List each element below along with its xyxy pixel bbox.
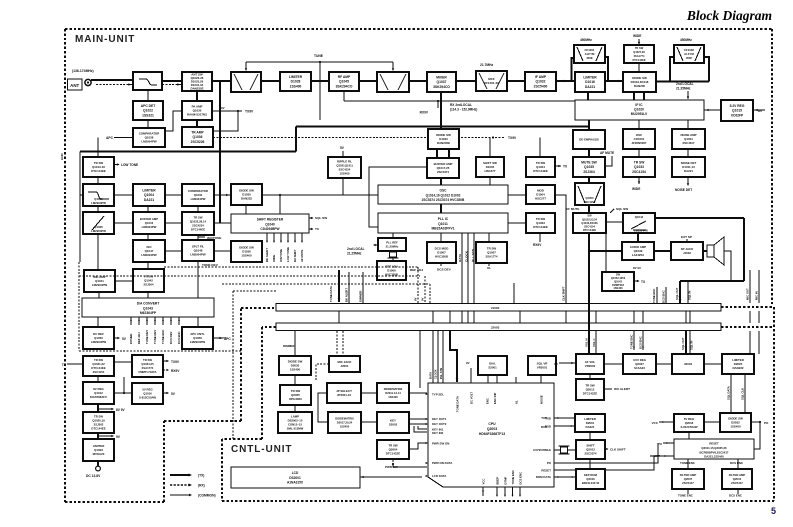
svg-text:(COMMON): (COMMON) — [198, 494, 216, 498]
wire IF IC to osc — [638, 120, 640, 129]
ah daout TONE DEV — [154, 319, 156, 321]
wire d1033 to buffer — [437, 149, 449, 158]
block TR SW Q1003 — [526, 213, 555, 233]
wire trsw q1004 up — [539, 138, 541, 158]
wire filter2 to mixer — [409, 80, 427, 82]
wire sp jack to speaker — [703, 250, 707, 252]
block TR SW Q1020 — [83, 412, 114, 433]
svg-text:RX9V: RX9V — [533, 243, 542, 247]
wire clk shift drop — [565, 279, 567, 303]
svg-text:3SK294CO: 3SK294CO — [433, 85, 450, 89]
block DIODE SW D1036 — [231, 241, 262, 262]
wire trsw q1024 rx9v — [163, 369, 168, 371]
svg-text:TONE ENC: TONE ENC — [652, 289, 656, 303]
wire limiter2 down to IF IC — [587, 92, 589, 100]
ah shtx — [311, 228, 314, 230]
svg-text:DPH4063: DPH4063 — [289, 397, 302, 401]
svg-text:2SC4154: 2SC4154 — [632, 170, 646, 174]
wire PA AMP right TX9V — [212, 110, 242, 112]
svg-text:D2011-12,14: D2011-12,14 — [385, 391, 401, 395]
svg-text:BK ALERT: BK ALERT — [265, 248, 269, 262]
wire key to cpu out2 — [409, 423, 427, 425]
wire vcc into 5vreg — [659, 421, 674, 423]
wire D/A out REF ADJ — [138, 317, 140, 325]
svg-text:TR SW: TR SW — [635, 46, 644, 50]
svg-text:D2017,20,24: D2017,20,24 — [337, 420, 353, 424]
svg-text:LM2904PW: LM2904PW — [634, 229, 648, 233]
svg-text:3.579545MHz: 3.579545MHz — [533, 448, 552, 452]
svg-text:DS2001: DS2001 — [289, 476, 301, 480]
svg-text:REF ADJ: REF ADJ — [137, 332, 141, 344]
block TR SW Q2004 — [377, 440, 409, 459]
svg-text:TONE DATA: TONE DATA — [329, 286, 333, 302]
block DCS MOD — [427, 242, 456, 263]
svg-text:DITHER: DITHER — [129, 334, 133, 344]
svg-text:GND: GND — [60, 153, 64, 161]
svg-text:HSC277: HSC277 — [485, 169, 496, 173]
ah sqlsw — [311, 217, 314, 219]
svg-text:LM2904PW: LM2904PW — [141, 140, 157, 144]
svg-text:DCS ENC: DCS ENC — [730, 461, 744, 465]
wire sql data down — [730, 374, 732, 413]
wire trsw to trsw power — [114, 361, 132, 363]
svg-text:CD4094BPW: CD4094BPW — [260, 227, 279, 231]
svg-text:Q1032: Q1032 — [536, 80, 546, 84]
ah lowtone — [117, 163, 120, 165]
wire lpf down hpf — [97, 206, 99, 212]
block DIODE SW D1010 — [623, 72, 656, 92]
arrowhead wideb — [638, 181, 640, 184]
svg-text:2SC4617: 2SC4617 — [682, 141, 694, 145]
block DIODE SW D2032 — [720, 413, 751, 432]
wire cpu keyin2 — [414, 426, 427, 432]
block TR AMP — [182, 127, 213, 147]
svg-text:CLK SHIFT: CLK SHIFT — [610, 448, 626, 452]
wire D/A out DITHER — [130, 317, 132, 325]
svg-text:D1016: D1016 — [585, 80, 595, 84]
block DC REF — [83, 327, 114, 349]
wire shift register out RX SHIFT — [294, 233, 296, 242]
block COMPARATOR APC — [133, 128, 165, 147]
svg-text:LM2904PW: LM2904PW — [91, 201, 106, 205]
svg-text:APC: APC — [106, 136, 114, 140]
wire TUNE drop — [319, 62, 321, 120]
block NOISE DET — [672, 157, 705, 177]
svg-text:SQL OUT: SQL OUT — [681, 337, 685, 350]
svg-text:1SS400: 1SS400 — [730, 425, 741, 429]
junction d1030 line — [279, 194, 281, 196]
junction TX9V mid — [492, 136, 494, 138]
wire dimmer j2003 down — [294, 331, 296, 356]
wire mic out above j1003 — [749, 270, 751, 303]
wire CF1001 right leg — [605, 57, 608, 81]
block SW Q1052 group — [573, 213, 606, 233]
wire buffer down iso — [147, 234, 149, 240]
svg-text:DTC144EE: DTC144EE — [533, 169, 548, 173]
ah cpu left y443 — [426, 442, 428, 444]
svg-text:LM2904PW: LM2904PW — [91, 340, 107, 344]
svg-text:Q1052,1053: Q1052,1053 — [611, 276, 626, 280]
wire cpu po route — [554, 443, 658, 463]
svg-text:DTC144EE: DTC144EE — [533, 225, 548, 229]
svg-text:Q2011,15,Q2025,26: Q2011,15,Q2025,26 — [701, 446, 727, 450]
wire 8vreg to 5vreg — [114, 392, 132, 394]
wire tone data thick — [338, 270, 340, 302]
wire lowtone stub — [114, 164, 119, 166]
svg-text:2SC5226: 2SC5226 — [191, 140, 205, 144]
arrowhead noisedet — [687, 183, 689, 186]
svg-text:D/A CONVERT: D/A CONVERT — [137, 302, 160, 306]
block SQL VR — [528, 356, 556, 375]
wire sw tx out — [634, 280, 639, 282]
block SQL SW Q1044 — [623, 213, 655, 233]
svg-text:ANT: ANT — [70, 83, 79, 88]
wire clock down — [467, 233, 469, 303]
svg-text:Q1045: Q1045 — [339, 80, 349, 84]
svg-text:5: 5 — [771, 506, 776, 516]
wire fa2 out — [737, 489, 739, 494]
svg-text:LOW TONE: LOW TONE — [286, 247, 290, 262]
wire q2004 to cpu — [409, 443, 427, 449]
svg-text:Q1050: Q1050 — [585, 196, 594, 200]
block OSC CO1001 — [623, 129, 655, 149]
wire buffer to osc — [440, 178, 442, 185]
wire jp to matrix1 — [361, 392, 377, 394]
svg-text:(136-174MHz): (136-174MHz) — [72, 69, 94, 73]
svg-text:JF06N5007: JF06N5007 — [631, 141, 646, 145]
ah shiftout AF MUTE — [301, 241, 303, 243]
block J2004 — [672, 354, 704, 374]
frame CNTL-UNIT bottom — [222, 500, 774, 502]
block APC CNTL — [182, 327, 213, 349]
bus RX audio corner vertical — [295, 127, 297, 152]
svg-text:VOL C: VOL C — [592, 339, 596, 348]
ah cpu left y476 — [426, 475, 428, 477]
svg-text:DTC144EE: DTC144EE — [91, 427, 105, 431]
svg-text:Q2003: Q2003 — [487, 427, 497, 431]
svg-text:LIMITER: LIMITER — [583, 76, 597, 80]
svg-text:DE-EMPHASIS: DE-EMPHASIS — [579, 138, 599, 142]
svg-text:LIMITER: LIMITER — [142, 189, 156, 193]
wire sql vr to cpu — [540, 375, 542, 383]
svg-text:RESET: RESET — [709, 442, 719, 446]
ah tonedata — [338, 298, 341, 301]
junction pwrsw — [392, 463, 394, 465]
svg-text:Q1033: Q1033 — [634, 165, 644, 169]
block 5V REG cntl — [674, 414, 704, 432]
wire mic dashed a to mic jack — [336, 331, 338, 356]
block antenna low-pass filter — [133, 72, 162, 90]
svg-text:DCS ENC: DCS ENC — [639, 336, 643, 349]
block TR SW wide select — [624, 45, 654, 63]
svg-text:2SC4154: 2SC4154 — [584, 225, 595, 229]
wire trsw1020 down — [97, 433, 99, 439]
wire TR AMP dashed output — [213, 137, 505, 139]
svg-text:J2004: J2004 — [684, 362, 693, 366]
wire wide below tr sw — [638, 177, 640, 184]
block 8V REG — [83, 382, 114, 404]
wire shift sw up to dashed — [489, 138, 491, 158]
svg-text:DIODEMATRIX: DIODEMATRIX — [384, 387, 403, 391]
svg-text:DAN235E: DAN235E — [437, 141, 450, 145]
wire cpu bottom DTMF — [504, 487, 506, 496]
wire LPF to ANT SW dashed RX — [162, 84, 182, 86]
wire data down — [461, 233, 463, 303]
wire apccntl up da — [197, 317, 199, 327]
wire pwr sw stub — [392, 459, 394, 462]
svg-text:Q1027,28: Q1027,28 — [633, 50, 645, 54]
svg-text:TYP SEL: TYP SEL — [432, 393, 444, 397]
svg-text:LIMITER: LIMITER — [289, 75, 303, 79]
svg-text:DA221,1SS400: DA221,1SS400 — [704, 455, 724, 459]
svg-text:DATA: DATA — [458, 253, 462, 262]
svg-text:J2003: J2003 — [491, 325, 500, 329]
svg-text:RX9V: RX9V — [171, 369, 180, 373]
wire comparator down trsw — [197, 206, 199, 212]
svg-text:AF MUTE: AF MUTE — [300, 249, 304, 262]
svg-text:2SA1774: 2SA1774 — [634, 54, 645, 58]
svg-text:LM2904PW: LM2904PW — [142, 225, 157, 229]
svg-text:NOISE: NOISE — [539, 395, 543, 404]
ah rxd — [571, 425, 573, 427]
wire q2004 pwr on data — [393, 465, 427, 467]
wire tone data thick cpu — [450, 331, 457, 382]
wire q1007 up pll — [488, 233, 490, 242]
speaker SP1001 — [707, 237, 724, 265]
bus RX audio horizontal — [296, 125, 589, 127]
svg-text:CLK SHIFT: CLK SHIFT — [562, 286, 566, 301]
ah cpu left y419 — [426, 418, 428, 420]
wire mic in above j1003 — [758, 270, 760, 303]
svg-text:LM2904PW: LM2904PW — [190, 253, 206, 257]
svg-text:DCS ENC: DCS ENC — [518, 472, 522, 485]
wire dial to cpu b — [496, 375, 498, 383]
svg-text:NOISE DET: NOISE DET — [675, 188, 692, 192]
svg-text:RX SHIFT: RX SHIFT — [293, 249, 297, 262]
svg-text:Q1040: Q1040 — [265, 223, 275, 227]
svg-text:Q1043,D1026: Q1043,D1026 — [581, 221, 598, 225]
svg-text:TONE ENC: TONE ENC — [161, 330, 165, 344]
wire pll stb down cpu — [442, 331, 444, 383]
wire sql thick loop right — [743, 218, 745, 281]
frame MAIN-UNIT step1 horizontal — [164, 420, 241, 422]
svg-text:Q1004: Q1004 — [144, 193, 154, 197]
wire q2005 to lamp — [294, 405, 296, 412]
svg-text:LM2904PW: LM2904PW — [190, 340, 206, 344]
svg-text:1SS321: 1SS321 — [142, 113, 154, 117]
block AF VOL — [576, 354, 604, 374]
bus dashed apc — [233, 290, 276, 292]
svg-text:LCD: LCD — [292, 471, 299, 475]
svg-text:8V: 8V — [414, 297, 418, 301]
legend ah tx — [189, 474, 192, 477]
svg-text:Q1052,53,54: Q1052,53,54 — [582, 217, 598, 221]
svg-text:WX/TONE: WX/TONE — [279, 249, 283, 262]
wire TUNE into filter2 — [392, 62, 394, 70]
svg-text:21.7MHz: 21.7MHz — [480, 63, 494, 67]
arrowhead RX into ANT SW — [177, 83, 180, 85]
ah cpu left y394 — [426, 393, 428, 395]
wire d2030 to q2005 — [294, 375, 296, 385]
ah 8v9v — [111, 408, 114, 410]
block IF AMP Q1032 — [525, 72, 556, 91]
ah shiftout WIDE — [273, 241, 275, 243]
wire sql out drop — [679, 281, 681, 303]
block 5.2V REG — [721, 100, 753, 121]
filter varactor tuned 2 — [377, 72, 409, 92]
wire dc ref 5v — [114, 337, 119, 339]
svg-text:XC62FP: XC62FP — [731, 113, 744, 117]
wire trsw1042 down da — [147, 292, 149, 298]
block D/A CONVERT — [82, 298, 214, 317]
ah dcref5v — [117, 337, 120, 339]
wire jp bracket — [318, 393, 328, 422]
block MIXER Q1037 — [427, 72, 456, 92]
wire LPF to ANT SW — [162, 80, 182, 82]
svg-text:TONE ENC: TONE ENC — [630, 335, 634, 349]
wire cpu bottom TONE ENC — [512, 487, 514, 496]
wire TUNE into filter1 — [245, 62, 247, 70]
wire cpu reset route — [554, 456, 661, 470]
svg-text:TONE DATA: TONE DATA — [455, 396, 459, 412]
wire 8vreg down — [97, 404, 99, 412]
wire lpf to limiter row3 — [114, 194, 133, 196]
wire 5v into ripple — [342, 151, 344, 157]
wire pll stb down — [473, 233, 475, 303]
ah daout REF ADJ — [138, 319, 140, 321]
wire typ sel from J2003 — [419, 331, 421, 388]
wire D/A out TUNE DEV — [146, 317, 148, 325]
svg-text:RXD: RXD — [541, 425, 547, 429]
wire j2004 to limiter — [704, 363, 722, 365]
svg-text:LM2904PW: LM2904PW — [191, 197, 206, 201]
legend thick TX arrow — [170, 474, 190, 476]
block BUFFER AMP Q1016 — [133, 212, 165, 234]
block SHIFT — [576, 440, 605, 459]
ah shiftout WX/TONE — [280, 241, 282, 243]
wire diode sw down to IF IC — [634, 92, 644, 100]
svg-text:PWR SW ON: PWR SW ON — [432, 442, 449, 446]
svg-text:TONE ENC: TONE ENC — [678, 494, 694, 498]
frame CNTL-UNIT left link to J2003 — [262, 326, 276, 328]
frame MAIN-UNIT bottom left — [65, 501, 164, 503]
svg-text:TONE DEV: TONE DEV — [202, 263, 219, 267]
block PLL REF — [378, 238, 406, 251]
svg-text:TX9V: TX9V — [508, 136, 517, 140]
wire dial to cpu a — [487, 375, 489, 383]
svg-text:MUTE SW: MUTE SW — [581, 161, 597, 165]
block TR SW wx tone — [182, 212, 214, 235]
svg-text:TX9V: TX9V — [245, 110, 254, 114]
wire sql sw down audio amp — [637, 233, 639, 242]
wire micamp to trsw row6 — [115, 280, 133, 282]
block SHIFT SW — [476, 157, 504, 177]
svg-text:DIMMER: DIMMER — [283, 344, 296, 348]
block COMPARATOR Q1002 — [182, 184, 214, 206]
svg-text:(RX): (RX) — [198, 484, 205, 488]
wire buffer amp left to PLL — [369, 167, 427, 227]
svg-text:SW: SW — [616, 273, 621, 277]
svg-text:LOW TONE: LOW TONE — [121, 163, 138, 167]
block TR SW Q1007 — [476, 242, 507, 263]
svg-text:Q1044: Q1044 — [635, 215, 644, 219]
svg-text:REF ADJ: REF ADJ — [410, 268, 423, 272]
ah cpu left y424 — [426, 423, 428, 425]
svg-text:TONE DEV: TONE DEV — [153, 330, 157, 344]
block ANT SW — [182, 72, 212, 91]
block MUTE SW — [573, 157, 605, 177]
svg-text:8V 9V: 8V 9V — [633, 266, 641, 270]
bus dashed mid3 — [222, 283, 430, 285]
svg-text:2SC5374: 2SC5374 — [584, 452, 596, 456]
ah clkshift — [606, 448, 608, 450]
wire sql thick loop bottom — [680, 280, 744, 282]
legend ah rx — [189, 484, 192, 487]
svg-text:UL: UL — [514, 400, 518, 404]
arrowhead into diode sw — [618, 80, 621, 83]
svg-text:450MHz: 450MHz — [580, 38, 592, 42]
arrowhead pllref — [373, 244, 376, 246]
wire afvol to 35vreg — [604, 363, 623, 365]
wire cpu txd — [554, 417, 575, 419]
svg-text:9V: 9V — [421, 297, 425, 301]
svg-text:(114.3 - 152.9MHz): (114.3 - 152.9MHz) — [450, 108, 477, 112]
svg-text:DA221: DA221 — [586, 425, 595, 429]
wire 8v drop dashed — [417, 267, 419, 303]
bus RX audio lower horizontal — [80, 150, 296, 152]
block SPLT FIL — [182, 240, 214, 261]
wire cpu bottom BEEP — [496, 487, 498, 496]
wire tone enc above j1003 — [656, 287, 658, 303]
bus RX audio left vertical — [79, 152, 81, 263]
block PLL IC — [378, 213, 508, 233]
ah daout DITHER — [130, 319, 132, 321]
ah 9vout — [111, 435, 114, 437]
arrowhead 8V reg — [755, 109, 758, 111]
wire q1007 down ul — [488, 263, 490, 266]
wire noise det down — [687, 177, 689, 185]
wire limiter down buffer — [147, 206, 149, 212]
wire trsw down splt — [197, 235, 199, 240]
wire ANT SW down to PA AMP — [196, 91, 198, 101]
arrowhead q1004tx — [558, 165, 561, 167]
svg-text:SQL OUT: SQL OUT — [675, 287, 679, 300]
wire PA AMP to TR AMP — [196, 120, 198, 127]
svg-text:SQL IN: SQL IN — [690, 341, 694, 350]
wire hpf down micamp — [97, 234, 99, 270]
block IF IC — [575, 100, 704, 120]
svg-text:BR24L04F-W: BR24L04F-W — [582, 481, 600, 485]
svg-text:AF MUTE: AF MUTE — [600, 151, 614, 155]
svg-text:DAN222: DAN222 — [241, 197, 252, 201]
svg-text:450F: 450F — [686, 56, 693, 60]
svg-text:WIDE: WIDE — [633, 34, 641, 38]
wire RX9V rail horizontal — [344, 100, 575, 102]
wire shift register out BK ALERT — [266, 233, 268, 242]
svg-text:D1028: D1028 — [291, 80, 301, 84]
block TR SW Q1042 — [133, 269, 164, 292]
svg-text:APC: APC — [220, 336, 227, 340]
svg-text:CPU: CPU — [488, 422, 496, 426]
svg-text:Q1014,16 Q1012 D1002: Q1014,16 Q1012 D1002 — [426, 194, 461, 198]
svg-text:PLL STB: PLL STB — [439, 368, 443, 379]
wire sw to sql sw — [606, 221, 623, 223]
wire dc volt stub — [470, 368, 472, 383]
svg-text:DTMF: DTMF — [503, 476, 507, 484]
wire pll ref left out — [374, 244, 378, 246]
wire trsw lowtone to lpf — [97, 177, 99, 184]
block PA AMP — [182, 101, 212, 120]
